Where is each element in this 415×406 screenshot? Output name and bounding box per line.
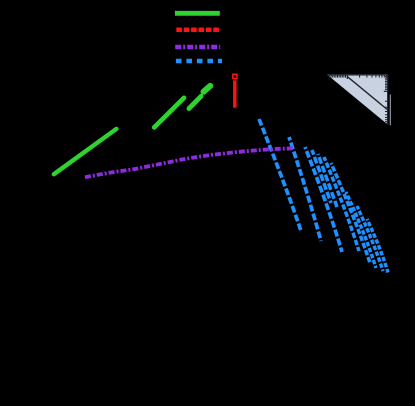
blue dashed line A bbox=[259, 119, 301, 231]
inset top major tick bbox=[346, 75, 348, 79]
blue dashed line F bbox=[324, 157, 359, 251]
inset top spine bbox=[327, 74, 388, 76]
legend line purple dash-dot bbox=[175, 45, 220, 49]
blue dashed line J bbox=[367, 219, 388, 273]
green track segment 3 upper dash bbox=[204, 86, 211, 92]
inset right major tick bbox=[384, 90, 388, 92]
blue dashed line H bbox=[346, 192, 376, 268]
inset outer grey line bbox=[389, 95, 391, 126]
inset right spine bbox=[387, 75, 389, 125]
blue dashed line I bbox=[357, 206, 383, 271]
inset right minor ticks (top dense run) bbox=[385, 77, 388, 90]
legend line blue dashed bbox=[176, 59, 222, 63]
legend line green solid bbox=[175, 11, 220, 16]
blue dashed line G bbox=[331, 163, 370, 263]
green track segment 2 bbox=[154, 98, 184, 128]
blue dashed line E bbox=[318, 154, 337, 207]
blue dashed line D bbox=[312, 150, 331, 203]
inset right minor ticks (lower log run) bbox=[385, 101, 388, 123]
purple dash-dot curve bbox=[85, 148, 293, 177]
blue dashed line C bbox=[305, 147, 342, 252]
inset top minor ticks (right log run) bbox=[360, 75, 387, 78]
inset diagonal dark line bbox=[347, 76, 388, 110]
red upper-limit marker (open square) bbox=[233, 74, 237, 78]
inset triangle fill bbox=[327, 75, 388, 125]
inset top minor ticks (left dense run) bbox=[329, 75, 345, 78]
legend line red dashed bbox=[176, 28, 221, 33]
green track segment 1 bbox=[54, 129, 117, 174]
green track segment 3 lower dash bbox=[189, 96, 201, 108]
red vertical bar bbox=[233, 80, 237, 107]
blue dashed line B bbox=[289, 137, 321, 241]
